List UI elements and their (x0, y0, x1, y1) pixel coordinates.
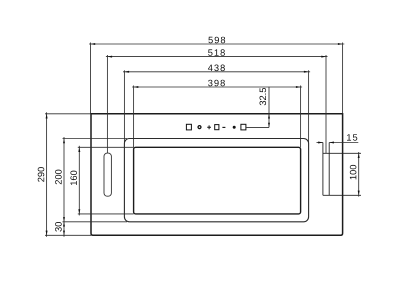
label 160 (70, 171, 77, 185)
ext line 398 left (133, 86, 135, 148)
ext line 398 right (300, 86, 302, 148)
leader line to 32.5 dim (246, 126, 269, 128)
dim line 100 (358, 152, 360, 197)
dim 32.5 vertical line (268, 87, 270, 128)
control square 1 (186, 124, 191, 130)
canopy rounded panel (124, 139, 308, 222)
control square 3 (241, 124, 246, 130)
dim line 200 and 30 shared (63, 137, 65, 237)
ext line 518 left (106, 55, 108, 153)
ext line canopy bottom left (63, 221, 128, 223)
dim line 290 (46, 112, 48, 237)
ext line 438 right (308, 70, 310, 143)
hood body outline (91, 114, 343, 236)
glass panel (134, 147, 301, 214)
dim line 518 (106, 56, 328, 58)
label 398 (208, 80, 225, 87)
ext line body top left (45, 113, 91, 115)
ext line glass top left (78, 146, 134, 148)
control square 2 (215, 125, 219, 130)
flange left edge (322, 143, 324, 196)
dim line 438 (123, 71, 310, 73)
label 200 (55, 170, 62, 185)
ext line glass bottom left (78, 213, 134, 215)
ext line 438 left (123, 70, 125, 142)
dim 15 right segment (329, 142, 358, 144)
control plus (207, 125, 211, 129)
label 15 (347, 134, 357, 140)
dim 15 left segment (317, 142, 323, 144)
label 438 (208, 65, 225, 72)
ext line 598 right (342, 43, 344, 114)
flange bottom edge (323, 194, 361, 196)
label 100 (350, 165, 357, 179)
ext line canopy top left (63, 138, 128, 140)
ext line 598 left (90, 43, 92, 114)
ext line body bottom left (45, 234, 91, 236)
flange divider line (328, 143, 330, 196)
label 30 (55, 222, 62, 232)
flange top edge (323, 152, 361, 154)
label 32.5 (260, 88, 267, 105)
handle capsule (104, 153, 111, 196)
control minus (222, 126, 225, 128)
dim line 160 (78, 146, 80, 216)
control dot (233, 126, 236, 129)
ext line 518 right (325, 55, 327, 153)
label 518 (208, 49, 225, 56)
dim line 598 (89, 43, 344, 45)
dim line 398 (132, 86, 302, 88)
label 290 (38, 167, 45, 182)
control ring (198, 126, 201, 129)
label 598 (208, 37, 225, 44)
